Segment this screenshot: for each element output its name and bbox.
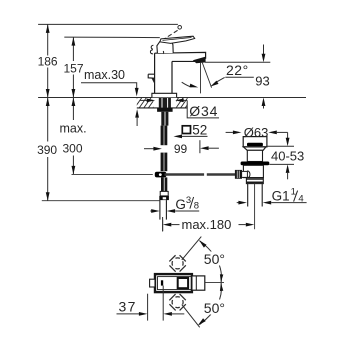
flexible hose lower <box>161 153 168 172</box>
max.30 leader <box>81 83 137 88</box>
pull-rod joint <box>155 172 167 178</box>
waste centerline <box>254 184 256 230</box>
99 right extension tick <box>199 140 201 153</box>
plan centerline right <box>205 282 224 284</box>
rod adjuster knob <box>235 170 241 178</box>
svg-text:40-53: 40-53 <box>271 149 304 164</box>
svg-text:50°: 50° <box>204 300 225 316</box>
svg-text:93: 93 <box>255 73 269 88</box>
svg-text:3: 3 <box>186 195 191 206</box>
svg-text:22°: 22° <box>226 62 249 78</box>
dimension 99 left arrow <box>144 148 154 150</box>
max.30 lower arrow <box>135 109 139 118</box>
40-53 upper ref line <box>267 145 294 147</box>
supply pipe <box>159 200 161 220</box>
rod link piece <box>242 171 248 177</box>
lever blade <box>160 36 195 43</box>
waste flange cap <box>243 137 267 147</box>
lower radius line <box>182 305 200 328</box>
svg-text:50°: 50° <box>204 251 225 267</box>
mounting nut under counter <box>157 108 173 112</box>
svg-text:186: 186 <box>38 55 58 69</box>
svg-text:99: 99 <box>174 142 188 156</box>
lower diagonal arrowhead + leader <box>198 318 206 325</box>
upper diagonal arrowhead + leader <box>199 240 206 247</box>
threaded stud <box>161 112 168 126</box>
waste body <box>243 165 263 177</box>
faucet spout block <box>155 52 206 58</box>
lower arc centerline arrow <box>220 283 223 291</box>
threaded shank through counter <box>159 98 171 108</box>
upper radius line <box>182 237 202 260</box>
upper diamond (handle at 50deg) <box>167 253 187 273</box>
faucet column left edge <box>154 53 156 93</box>
svg-text:8: 8 <box>194 201 199 212</box>
svg-text:max.180: max.180 <box>182 217 232 232</box>
flange gasket <box>247 143 263 147</box>
lower 50deg arc <box>199 283 221 325</box>
svg-text:G: G <box>175 197 186 212</box>
upper 50deg arc <box>199 241 221 283</box>
dimension 157 line <box>72 37 74 61</box>
G1-1/4 arrows <box>237 202 239 204</box>
dimension Ø34 arrows <box>140 99 148 101</box>
dimension max.180 <box>163 223 172 227</box>
extension line lever-top (186 ref) <box>38 23 178 25</box>
dimension max.300 line <box>72 98 74 121</box>
collar <box>160 191 168 196</box>
upper arc centerline arrow <box>220 274 223 282</box>
plan lever <box>192 276 205 290</box>
waste coupling <box>246 178 263 184</box>
svg-text:390: 390 <box>37 143 57 157</box>
faucet column right edge <box>171 61 173 93</box>
52 leader arrow <box>174 135 183 139</box>
counter hatch left <box>130 98 206 108</box>
93 upper arrow <box>263 45 265 55</box>
extension line lever-low (157 ref) <box>64 36 160 39</box>
hose level line (max.300 ref) <box>72 173 153 175</box>
svg-text:37: 37 <box>119 299 137 315</box>
22deg arc arrow <box>182 82 192 87</box>
horizontal pop-up rod <box>165 173 205 175</box>
93 lower arrow <box>262 98 266 107</box>
leader circle on lever extension <box>178 26 182 30</box>
white mask for 50deg labels <box>202 252 228 266</box>
svg-text:300: 300 <box>62 141 82 155</box>
square symbol 52 <box>182 126 190 134</box>
plan left tab <box>150 279 155 287</box>
waste neck <box>247 150 262 161</box>
G3/8 nut <box>159 196 169 200</box>
40-53 upper arrow <box>287 132 289 138</box>
aerator dark wedge <box>193 57 206 64</box>
svg-text:4: 4 <box>298 193 303 204</box>
svg-text:Ø63: Ø63 <box>244 125 269 140</box>
svg-text:157: 157 <box>63 61 83 75</box>
lever back curl marks <box>150 45 153 54</box>
37 extension line 1 <box>147 294 149 321</box>
22deg leader arrow <box>216 77 225 82</box>
plan cartridge square <box>178 278 188 288</box>
37 extension line 2 (from black mark) <box>162 286 164 321</box>
plan body outline <box>155 274 192 292</box>
40-53 lower ref line <box>269 163 294 165</box>
svg-text:G1: G1 <box>272 189 290 204</box>
flexible hose upper <box>161 126 168 146</box>
ball socket arc <box>247 171 250 179</box>
escutcheon base <box>152 93 177 97</box>
plan body inner face <box>158 277 192 290</box>
supply level line (390 ref) <box>42 200 160 202</box>
svg-text:max.30: max.30 <box>84 68 125 82</box>
40-53 lower arrow <box>286 164 290 173</box>
max.180 left extension <box>162 217 164 232</box>
lever base block <box>157 40 173 53</box>
G3/8 arrows <box>150 210 153 212</box>
svg-text:Ø34: Ø34 <box>189 103 218 119</box>
flange shoulder <box>243 147 266 150</box>
waste washer <box>241 162 270 166</box>
lower diamond (handle at 50deg) <box>167 292 187 312</box>
water stream axis <box>200 63 202 94</box>
svg-text:1: 1 <box>291 187 296 198</box>
99 right arrow <box>200 146 209 150</box>
spout level line <box>205 61 270 63</box>
counter bottom line <box>137 107 188 109</box>
dimension 186 line <box>47 24 49 55</box>
svg-text:max.: max. <box>59 121 86 135</box>
dimension Ø63 <box>226 131 233 133</box>
waste tailpipe <box>247 184 249 207</box>
dashed leader to lever <box>163 30 177 39</box>
rod below joint <box>161 177 167 191</box>
counter-top extension line <box>38 97 306 99</box>
pipe centerline to max.180 <box>162 220 164 231</box>
stream slant line <box>202 62 212 88</box>
dimension 390 line <box>47 98 49 142</box>
svg-text:52: 52 <box>192 122 207 137</box>
pop-up rod knob on column <box>148 74 154 78</box>
Ø34 leader <box>187 100 219 118</box>
plan black mark <box>161 280 163 285</box>
spout underside <box>172 60 197 62</box>
22deg underline <box>225 76 254 78</box>
